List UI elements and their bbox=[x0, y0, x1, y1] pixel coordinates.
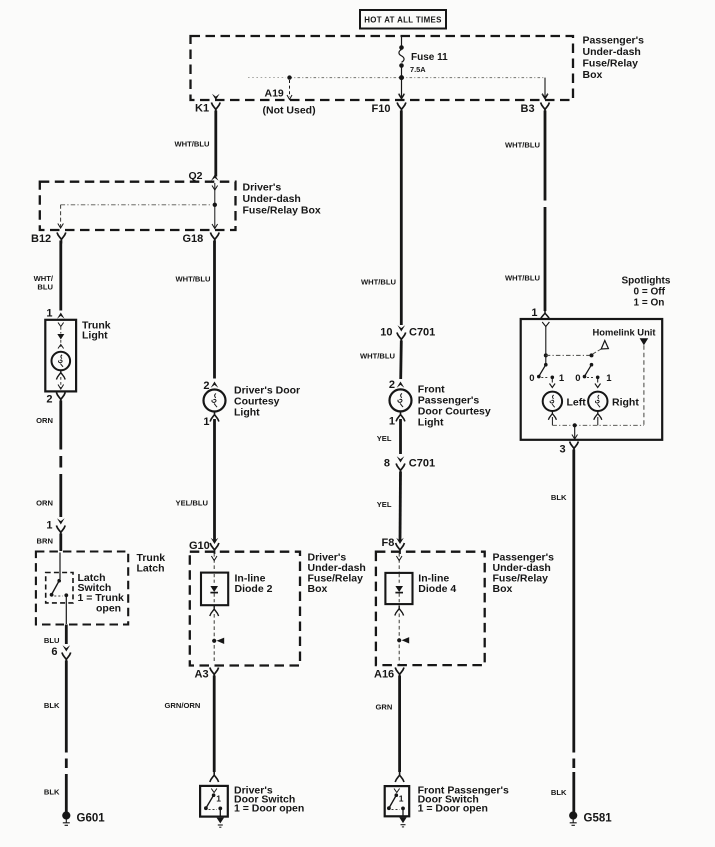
driver's under-dash fuse/relay box (upper, dashed) bbox=[40, 182, 321, 231]
trunk latch assembly (dashed box) bbox=[36, 552, 165, 625]
in-line connector pin 6 bbox=[51, 645, 70, 663]
svg-text:YEL: YEL bbox=[377, 500, 392, 509]
svg-text:0: 0 bbox=[529, 373, 534, 384]
svg-text:WHT/BLU: WHT/BLU bbox=[176, 275, 212, 284]
driver's door switch bbox=[200, 772, 304, 827]
wire F10 down (WHT/BLU) bbox=[361, 111, 401, 326]
terminal G18 bbox=[183, 233, 220, 246]
wire to G601 (BLK, with harness break) bbox=[44, 661, 66, 813]
wire B3 down (WHT/BLU, with harness break) bbox=[505, 111, 545, 312]
svg-text:Under-dash: Under-dash bbox=[243, 193, 301, 205]
wire trunk light to latch (ORN, with harness break) bbox=[36, 401, 61, 518]
internal link Q2 to G18 bbox=[212, 183, 218, 229]
svg-text:WHT/BLU: WHT/BLU bbox=[505, 274, 541, 283]
svg-text:Fuse 11: Fuse 11 bbox=[411, 52, 448, 63]
spotlight switch right (0/1) bbox=[575, 363, 612, 384]
svg-text:ORN: ORN bbox=[36, 499, 53, 508]
internal branch rail (dash-dot) bbox=[546, 353, 594, 357]
svg-text:ORN: ORN bbox=[36, 416, 53, 425]
svg-text:(Not Used): (Not Used) bbox=[263, 105, 316, 117]
wire K1 to Q2 (WHT/BLU) bbox=[174, 111, 215, 177]
svg-text:Q2: Q2 bbox=[188, 170, 202, 182]
svg-text:G581: G581 bbox=[584, 813, 613, 825]
svg-text:Left: Left bbox=[567, 397, 587, 409]
svg-text:Diode 2: Diode 2 bbox=[235, 583, 273, 595]
in-line diode 2 bbox=[201, 553, 273, 605]
svg-text:1: 1 bbox=[531, 307, 537, 319]
svg-text:YEL/BLU: YEL/BLU bbox=[176, 499, 209, 508]
wire A3 to driver's door switch (GRN/ORN) bbox=[165, 676, 215, 773]
svg-text:A16: A16 bbox=[374, 669, 394, 681]
svg-text:Box: Box bbox=[308, 583, 328, 595]
svg-text:Box: Box bbox=[583, 69, 603, 81]
svg-text:GRN: GRN bbox=[376, 703, 393, 712]
svg-text:0: 0 bbox=[575, 373, 580, 384]
svg-text:B3: B3 bbox=[521, 103, 535, 115]
svg-text:WHT/BLU: WHT/BLU bbox=[361, 278, 397, 287]
wire to G581 (BLK, with harness break) bbox=[551, 450, 574, 813]
svg-text:WHT/BLU: WHT/BLU bbox=[174, 140, 210, 149]
svg-text:Under-dash: Under-dash bbox=[583, 46, 641, 58]
svg-text:Right: Right bbox=[612, 397, 639, 409]
svg-text:G18: G18 bbox=[183, 233, 204, 245]
terminal F10 bbox=[372, 94, 406, 115]
svg-text:1: 1 bbox=[46, 308, 52, 320]
svg-text:Box: Box bbox=[493, 583, 513, 595]
svg-text:2: 2 bbox=[389, 379, 395, 391]
svg-text:Latch: Latch bbox=[137, 563, 165, 575]
ground G601 bbox=[62, 811, 105, 825]
terminal A19 (not used) bbox=[263, 75, 316, 116]
terminal B3 bbox=[521, 94, 550, 115]
front passenger's door courtesy light (bulb), pins 2/1 bbox=[389, 379, 491, 429]
trunk light (bulb), pins 1/2 bbox=[45, 308, 110, 406]
svg-text:HOT AT ALL TIMES: HOT AT ALL TIMES bbox=[364, 16, 442, 25]
svg-text:Fuse/Relay: Fuse/Relay bbox=[583, 58, 639, 70]
svg-text:K1: K1 bbox=[195, 103, 209, 115]
svg-text:7.5A: 7.5A bbox=[410, 65, 426, 74]
svg-text:Diode 4: Diode 4 bbox=[418, 583, 456, 595]
svg-text:1 = Door open: 1 = Door open bbox=[418, 803, 488, 815]
terminal A16 bbox=[374, 668, 404, 681]
wire B12 to trunk light (WHT/BLU) bbox=[34, 241, 61, 311]
svg-text:BRN: BRN bbox=[37, 537, 53, 546]
wire: rail drop to B3 bbox=[542, 78, 547, 98]
terminal G10 bbox=[189, 538, 219, 554]
spotlight bulb right bbox=[588, 379, 639, 425]
svg-text:G601: G601 bbox=[77, 813, 106, 825]
svg-text:1: 1 bbox=[399, 794, 404, 804]
svg-text:3: 3 bbox=[560, 444, 566, 456]
svg-text:1 = Door open: 1 = Door open bbox=[234, 803, 304, 815]
svg-text:8: 8 bbox=[384, 458, 390, 470]
svg-text:0 = Off: 0 = Off bbox=[634, 287, 666, 298]
svg-text:Passenger's: Passenger's bbox=[583, 35, 645, 47]
svg-text:C701: C701 bbox=[409, 458, 435, 470]
svg-text:BLK: BLK bbox=[44, 788, 60, 797]
terminal B12 bbox=[31, 233, 66, 246]
driver's under-dash fuse/relay box (lower, dashed) bbox=[190, 552, 366, 666]
svg-text:Spotlights: Spotlights bbox=[622, 276, 671, 287]
svg-text:1: 1 bbox=[606, 373, 612, 384]
svg-text:1: 1 bbox=[559, 373, 565, 384]
wire to C701 (YEL) bbox=[377, 419, 401, 454]
driver's door courtesy light (bulb), pins 2/1 bbox=[203, 380, 300, 428]
wire A16 to door switch (GRN) bbox=[376, 676, 400, 773]
svg-text:2: 2 bbox=[46, 394, 52, 406]
svg-text:BLU: BLU bbox=[37, 283, 53, 292]
in-line connector 10 C701 bbox=[380, 325, 435, 343]
svg-text:A3: A3 bbox=[195, 669, 209, 681]
svg-text:Light: Light bbox=[82, 330, 108, 342]
homelink unit return arrow (to ground rail) bbox=[640, 338, 649, 425]
diode2 output path with branch junction bbox=[210, 606, 224, 664]
svg-text:Homelink Unit: Homelink Unit bbox=[593, 327, 656, 338]
note: spotlights legend bbox=[622, 276, 671, 309]
wire courtesy light to G10 (YEL/BLU) bbox=[176, 419, 215, 541]
spotlight unit pin 1 entry bbox=[531, 307, 549, 319]
homelink unit feed arrow bbox=[593, 341, 608, 354]
terminal K1 bbox=[195, 94, 220, 115]
terminal 3 (spotlight unit exit) bbox=[560, 442, 579, 456]
svg-text:F10: F10 bbox=[372, 103, 391, 115]
internal ground rail (dash-dot) with junction bbox=[552, 423, 644, 439]
wire latch to connector (BLU) bbox=[44, 625, 66, 646]
terminal A3 bbox=[195, 668, 219, 681]
bus node: dotted rail inside top box bbox=[248, 75, 545, 80]
svg-text:BLK: BLK bbox=[551, 493, 567, 502]
in-line connector pin 1 (BRN) bbox=[37, 518, 66, 551]
front passenger's door switch bbox=[385, 772, 509, 827]
passenger's under-dash fuse/relay box (lower, dashed) bbox=[376, 552, 554, 666]
svg-text:C701: C701 bbox=[409, 327, 435, 339]
svg-text:6: 6 bbox=[51, 646, 57, 658]
svg-text:Light: Light bbox=[418, 417, 444, 429]
spotlight bulb left bbox=[543, 379, 587, 425]
svg-text:WHT/BLU: WHT/BLU bbox=[505, 141, 541, 150]
spotlight / homelink unit box bbox=[521, 319, 663, 440]
svg-text:1: 1 bbox=[203, 416, 209, 428]
svg-text:Driver's: Driver's bbox=[243, 182, 282, 194]
svg-text:B12: B12 bbox=[31, 233, 51, 245]
svg-text:WHT/BLU: WHT/BLU bbox=[360, 352, 396, 361]
in-line connector 8 C701 bbox=[384, 456, 435, 474]
svg-text:1: 1 bbox=[46, 520, 52, 532]
svg-text:open: open bbox=[96, 602, 121, 614]
internal feed wire with node bbox=[542, 322, 549, 365]
svg-text:YEL: YEL bbox=[377, 434, 392, 443]
svg-text:G10: G10 bbox=[189, 540, 210, 552]
svg-text:1: 1 bbox=[389, 416, 395, 428]
fuse F11 (Fuse 11, 7.5A) bbox=[399, 37, 448, 98]
spotlight switch left (0/1) bbox=[529, 363, 565, 384]
svg-text:GRN/ORN: GRN/ORN bbox=[165, 701, 201, 710]
svg-text:F8: F8 bbox=[382, 537, 395, 549]
wire to F8 (YEL) bbox=[377, 472, 401, 542]
passenger's under-dash fuse/relay box (top, dashed) bbox=[191, 35, 645, 101]
svg-text:BLU: BLU bbox=[44, 636, 60, 645]
diode4 output path with branch junction bbox=[395, 606, 409, 664]
svg-text:BLK: BLK bbox=[44, 701, 60, 710]
svg-text:BLK: BLK bbox=[551, 788, 567, 797]
in-line diode 4 bbox=[385, 553, 456, 604]
svg-text:10: 10 bbox=[380, 327, 392, 339]
HOT AT ALL TIMES label box bbox=[360, 10, 446, 29]
internal branch to B12 (dash-dot) bbox=[58, 205, 212, 228]
svg-text:1: 1 bbox=[216, 794, 221, 804]
wire to courtesy light (WHT/BLU) bbox=[360, 341, 401, 380]
svg-text:1 = On: 1 = On bbox=[634, 298, 665, 309]
latch switch (inner dashed box) bbox=[46, 553, 124, 625]
ground G581 bbox=[569, 811, 612, 825]
svg-text:A19: A19 bbox=[265, 88, 284, 100]
terminal F8 bbox=[382, 537, 405, 554]
terminal Q2 bbox=[188, 170, 218, 182]
wire G18 to courtesy light (WHT/BLU) bbox=[176, 241, 215, 379]
svg-text:Light: Light bbox=[234, 407, 260, 419]
svg-text:Fuse/Relay Box: Fuse/Relay Box bbox=[243, 205, 321, 217]
